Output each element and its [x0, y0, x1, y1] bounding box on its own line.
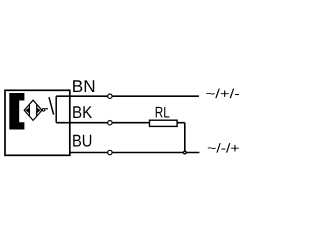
- svg-text:BK: BK: [72, 103, 93, 122]
- svg-text:RL: RL: [155, 105, 170, 122]
- resistor RL: [150, 120, 178, 126]
- svg-text:~/+/-: ~/+/-: [206, 86, 240, 101]
- svg-text:BU: BU: [72, 132, 92, 151]
- proximity sensor diamond: [24, 100, 42, 120]
- wire BK: [56, 122, 149, 124]
- terminal circle BN: [108, 94, 112, 98]
- diamond right wedge: [37, 108, 41, 114]
- active-face bracket symbol: [9, 93, 24, 130]
- sensor box outline: [5, 90, 70, 155]
- switch lever: [49, 97, 54, 114]
- diamond inner right chord: [36, 104, 38, 116]
- switch fixed contact vertical: [55, 96, 57, 122]
- svg-text:~/-/+: ~/-/+: [207, 141, 239, 156]
- wire BN: [56, 95, 199, 97]
- svg-text:BN: BN: [72, 77, 96, 96]
- switch pivot circle: [42, 109, 45, 112]
- wire RL drop vertical: [184, 123, 186, 153]
- diamond inner left chord: [28, 104, 30, 116]
- terminal circle BU: [108, 150, 112, 154]
- diamond left wedge: [25, 108, 29, 114]
- switch stub from pivot: [45, 108, 47, 110]
- wire BU: [70, 152, 199, 154]
- terminal circle BK: [108, 121, 112, 125]
- junction circle on BU: [184, 151, 187, 154]
- wire BK after resistor: [177, 122, 185, 124]
